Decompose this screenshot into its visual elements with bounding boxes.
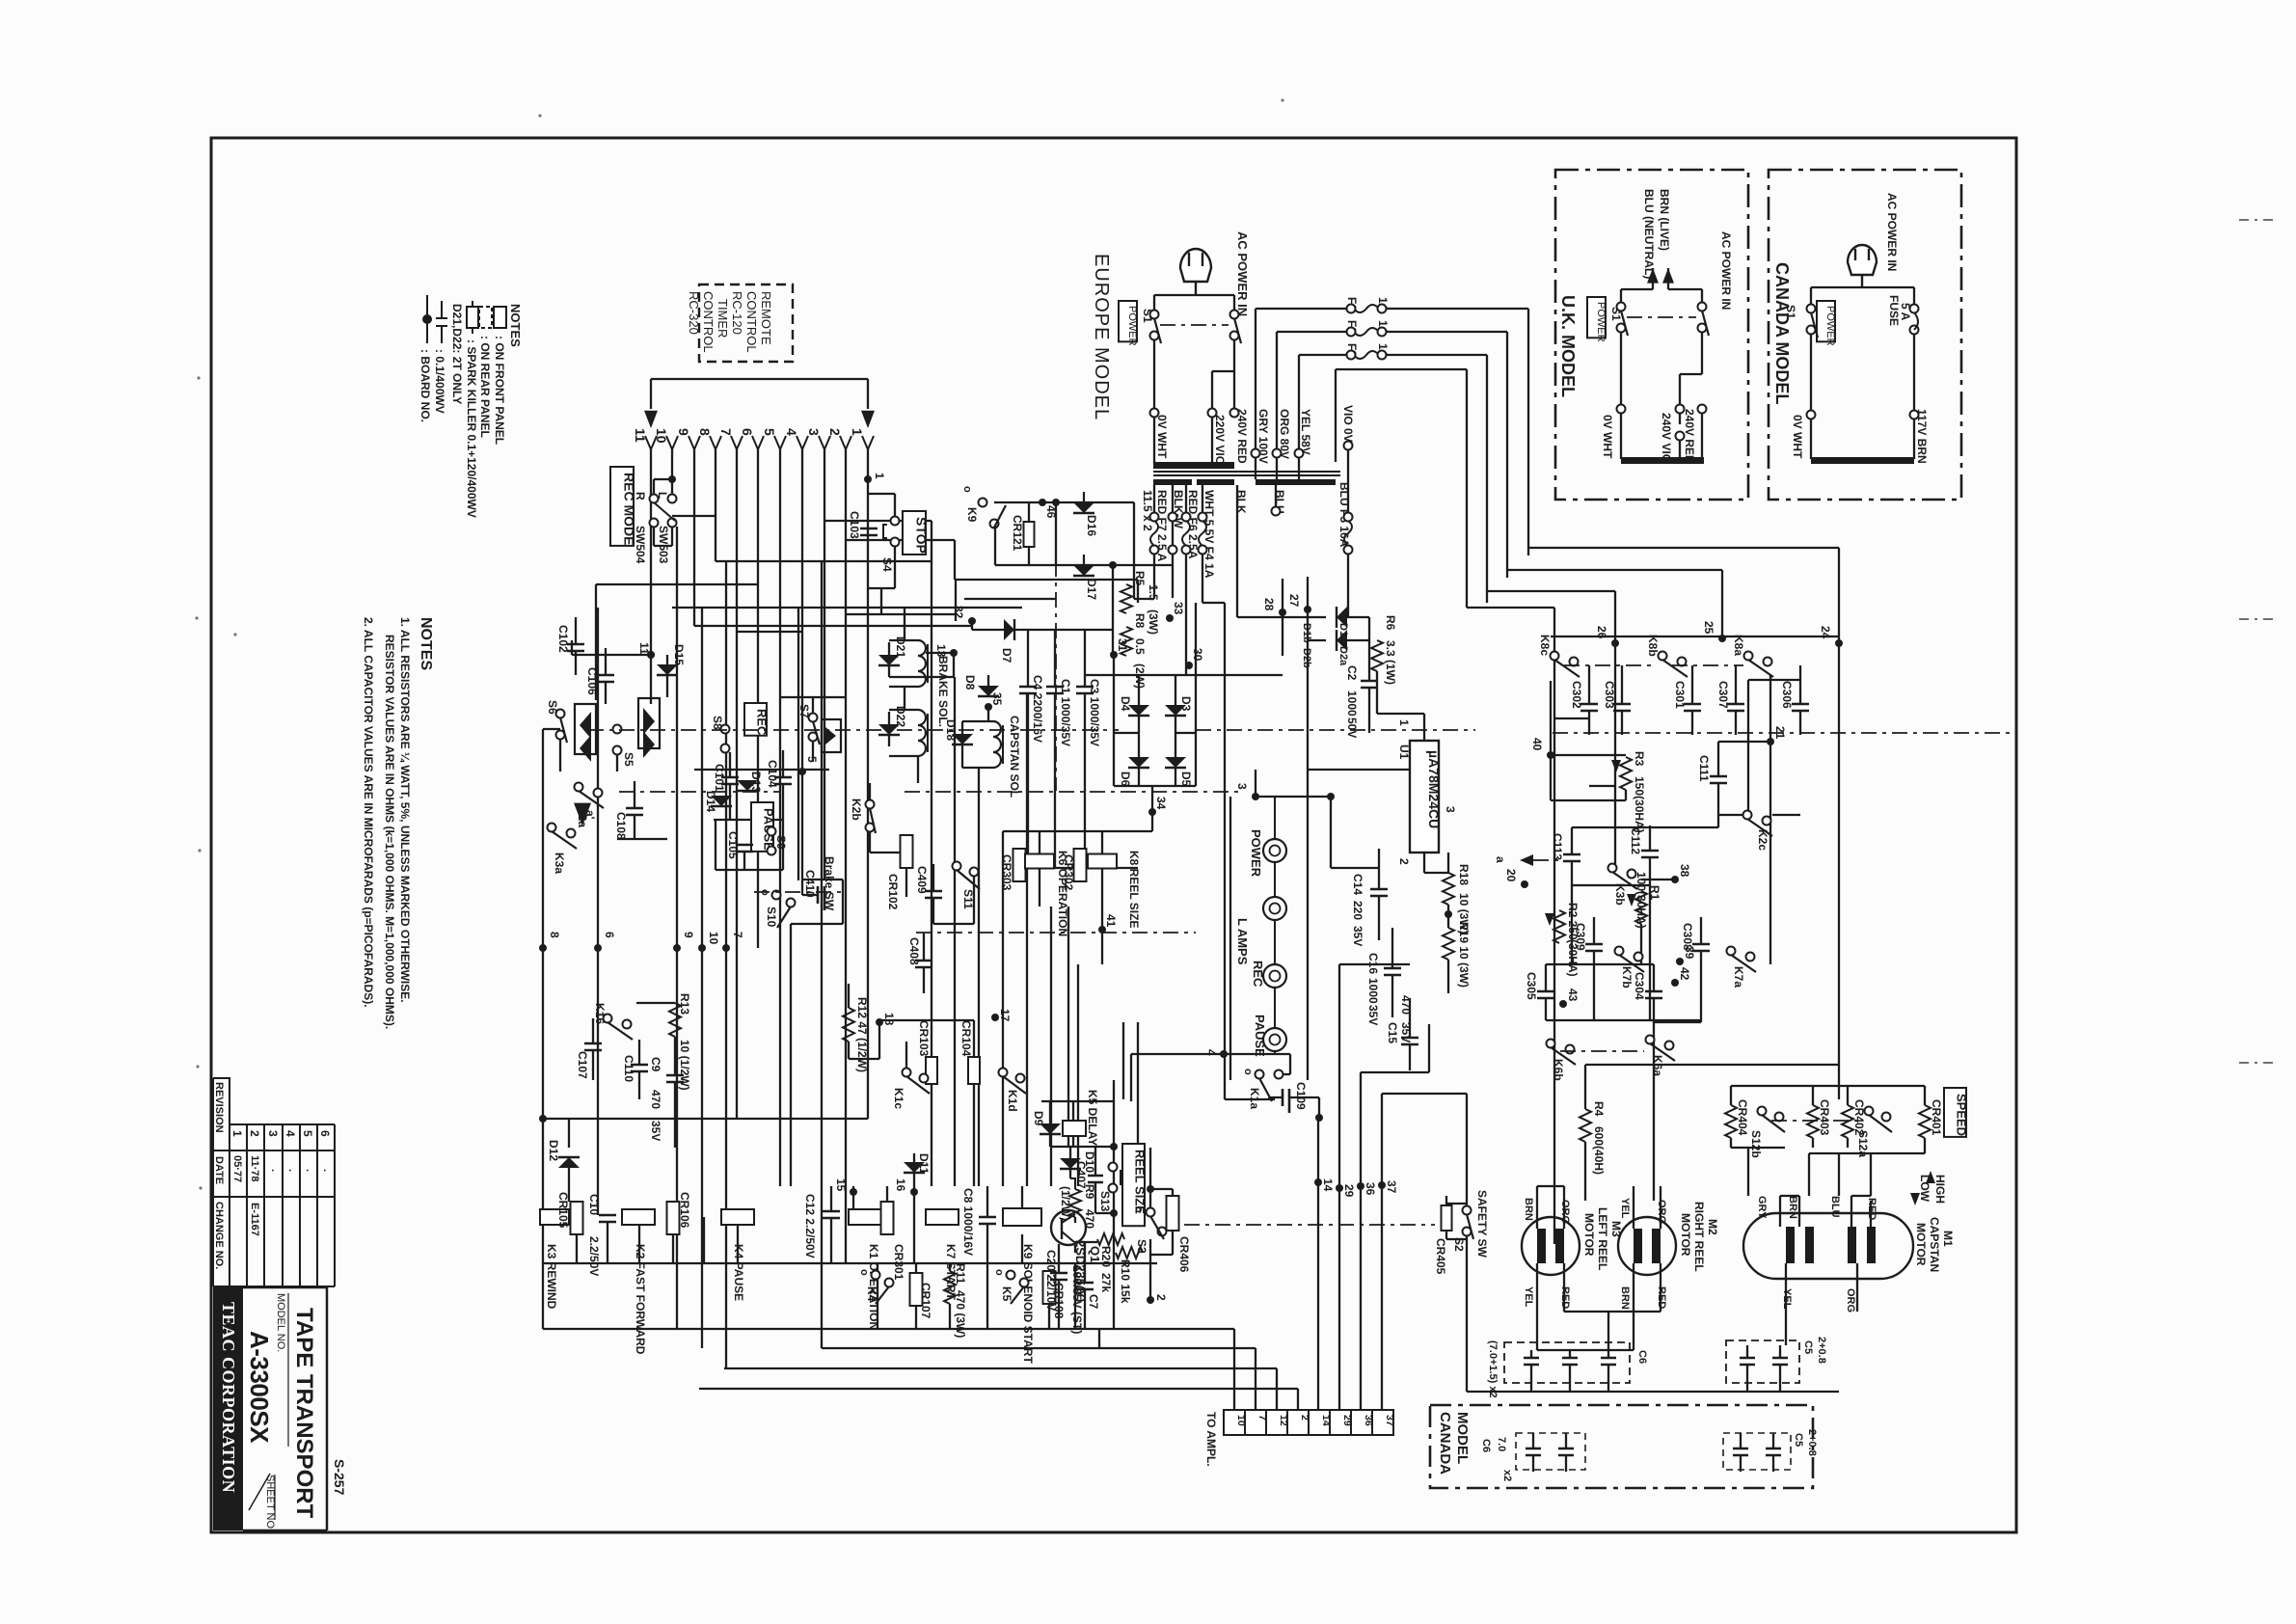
svg-text:27: 27 (1287, 594, 1301, 608)
svg-text:K8a: K8a (1732, 635, 1745, 656)
svg-text:C4 2200/16V: C4 2200/16V (1031, 675, 1044, 743)
svg-text:240V RED: 240V RED (1235, 409, 1249, 464)
svg-text:AC POWER IN: AC POWER IN (1235, 231, 1250, 316)
svg-text:220: 220 (1351, 901, 1364, 920)
svg-text:D15: D15 (672, 644, 686, 665)
svg-text:C106: C106 (585, 667, 599, 695)
svg-text:S3: S3 (1135, 1239, 1148, 1254)
svg-text:C6: C6 (1480, 1439, 1492, 1452)
svg-text:1: 1 (850, 428, 865, 436)
svg-text:U1: U1 (1397, 744, 1411, 760)
svg-text:YEL: YEL (1619, 1198, 1631, 1219)
svg-text:o: o (993, 1269, 1005, 1276)
svg-text:VIO 0V: VIO 0V (1341, 405, 1355, 443)
svg-text:CAPSTAN: CAPSTAN (1928, 1217, 1941, 1272)
svg-text:REVISION: REVISION (213, 1082, 225, 1133)
svg-text:K9 SOLENOID START: K9 SOLENOID START (1021, 1244, 1035, 1364)
svg-text:CR403: CR403 (1818, 1099, 1831, 1136)
svg-text:R11: R11 (954, 1263, 967, 1285)
svg-text:K3 REWIND: K3 REWIND (545, 1244, 558, 1310)
svg-text:30: 30 (1191, 648, 1204, 662)
svg-text:REC: REC (755, 709, 770, 736)
svg-text:C5: C5 (1802, 1340, 1814, 1354)
svg-text:K1a: K1a (1248, 1088, 1261, 1109)
svg-text:R10 15k: R10 15k (1119, 1259, 1132, 1304)
svg-text:REMOTE: REMOTE (759, 291, 773, 345)
svg-text:26: 26 (1595, 626, 1608, 639)
svg-text:S12a: S12a (1856, 1130, 1870, 1157)
svg-text:7.0: 7.0 (1496, 1437, 1507, 1451)
svg-text:C309: C309 (1574, 923, 1587, 951)
svg-text:TO AMPL.: TO AMPL. (1204, 1412, 1218, 1467)
svg-text:33: 33 (1172, 602, 1185, 615)
svg-text:7: 7 (718, 428, 734, 436)
svg-text:RED: RED (1866, 1198, 1877, 1220)
svg-text:MOTOR: MOTOR (1914, 1223, 1928, 1266)
svg-text:D14: D14 (704, 791, 717, 812)
svg-text:CR404: CR404 (1736, 1099, 1749, 1136)
svg-text:TIMER: TIMER (716, 299, 730, 338)
svg-text:C111: C111 (1697, 755, 1711, 782)
svg-text:C102: C102 (556, 625, 570, 653)
svg-text:C10: C10 (587, 1194, 601, 1215)
svg-text:MOTOR: MOTOR (1679, 1213, 1692, 1257)
svg-text:: ON REAR PANEL: : ON REAR PANEL (478, 336, 492, 438)
svg-text:R13: R13 (678, 993, 691, 1015)
svg-text:ORG: ORG (1656, 1200, 1667, 1224)
svg-text:C409: C409 (915, 866, 929, 894)
svg-text:K5: K5 (1000, 1286, 1013, 1302)
svg-text:D2a: D2a (1337, 646, 1349, 666)
svg-text:CR301: CR301 (892, 1244, 905, 1281)
svg-text:YEL: YEL (1523, 1286, 1534, 1308)
svg-text:CONTROL: CONTROL (701, 291, 716, 353)
svg-text:R1: R1 (1648, 885, 1661, 901)
svg-text:o: o (858, 1269, 870, 1276)
svg-text:470 (3W): 470 (3W) (954, 1290, 967, 1338)
svg-text:D21,D22: 2T ONLY: D21,D22: 2T ONLY (450, 304, 464, 404)
svg-text:DATE: DATE (213, 1156, 225, 1184)
svg-text:35V: 35V (649, 1121, 662, 1141)
svg-text:6: 6 (603, 932, 616, 938)
svg-text:3: 3 (806, 428, 822, 436)
svg-text:C7: C7 (1087, 1294, 1100, 1310)
svg-text:C407: C407 (1074, 1161, 1088, 1189)
svg-text:D17: D17 (1085, 579, 1098, 600)
svg-text:MOTOR: MOTOR (1582, 1213, 1596, 1257)
svg-text:CANADA MODEL: CANADA MODEL (1772, 262, 1792, 404)
svg-text:C6: C6 (1636, 1350, 1648, 1364)
svg-text:K3b: K3b (1613, 883, 1627, 906)
svg-text:R19 10 (3W): R19 10 (3W) (1457, 922, 1471, 988)
svg-text:14: 14 (1321, 1178, 1335, 1192)
svg-text:MODEL: MODEL (1454, 1412, 1471, 1464)
svg-text:R12 47 (1/2W): R12 47 (1/2W) (855, 997, 869, 1072)
svg-text:D13: D13 (749, 771, 763, 793)
svg-text:REEL SIZE: REEL SIZE (1133, 1150, 1148, 1214)
svg-text:(1/2W): (1/2W) (1059, 1186, 1072, 1221)
svg-text:0V WHT: 0V WHT (1601, 415, 1614, 459)
svg-text:K7a: K7a (1732, 966, 1745, 988)
svg-text:50V: 50V (1345, 717, 1359, 738)
svg-text:24: 24 (1819, 626, 1832, 639)
svg-text:S2: S2 (1452, 1237, 1466, 1252)
svg-text:2: 2 (1154, 1294, 1168, 1301)
svg-text:C2: C2 (1345, 665, 1359, 681)
svg-text:D22: D22 (894, 706, 907, 727)
svg-text:4: 4 (284, 1130, 297, 1137)
svg-text:K5 DELAY: K5 DELAY (1086, 1090, 1099, 1146)
svg-text:D6: D6 (1119, 771, 1132, 787)
svg-text:7: 7 (731, 932, 744, 938)
svg-text:100(30HA): 100(30HA) (1634, 872, 1648, 929)
svg-text:D2b: D2b (1301, 648, 1312, 668)
svg-text:S12b: S12b (1749, 1130, 1763, 1158)
svg-text:R18: R18 (1457, 864, 1471, 885)
svg-text:o: o (1242, 1069, 1254, 1075)
svg-text:6: 6 (318, 1130, 332, 1137)
svg-text:BLU: BLU (1829, 1196, 1841, 1218)
svg-text:R6: R6 (1384, 615, 1397, 631)
svg-text:SAFETY SW: SAFETY SW (1475, 1190, 1489, 1258)
svg-text:L AMPS: L AMPS (1235, 918, 1250, 965)
svg-text:BRN: BRN (1523, 1198, 1534, 1221)
svg-text:3.3 (1W): 3.3 (1W) (1384, 640, 1397, 685)
svg-text:RESISTOR VALUES ARE IN OHMS (k: RESISTOR VALUES ARE IN OHMS (k=1,000 OHM… (383, 635, 396, 1029)
svg-text:: ON FRONT PANEL: : ON FRONT PANEL (493, 336, 506, 445)
svg-text:CR401: CR401 (1930, 1099, 1943, 1136)
svg-text:CR105: CR105 (556, 1192, 570, 1229)
svg-text:C9: C9 (649, 1057, 662, 1072)
svg-text:11: 11 (633, 428, 648, 443)
svg-text:S1: S1 (1784, 305, 1797, 319)
svg-text:R4: R4 (1592, 1101, 1606, 1117)
svg-text:C3 1000/35V: C3 1000/35V (1088, 679, 1101, 746)
svg-text:Brake SW: Brake SW (823, 856, 836, 911)
svg-text:D16: D16 (1085, 515, 1098, 536)
svg-text:0V WHT: 0V WHT (1155, 415, 1169, 459)
svg-text:·: · (266, 1169, 278, 1173)
svg-text:BRN: BRN (1619, 1286, 1631, 1310)
svg-text:SW503: SW503 (657, 526, 670, 564)
svg-text:35V: 35V (1351, 926, 1364, 946)
svg-text:K6b: K6b (1552, 1059, 1565, 1081)
svg-text:2SD235(Y): 2SD235(Y) (1073, 1240, 1088, 1302)
svg-text:240V RED: 240V RED (1683, 409, 1696, 464)
svg-text:C410: C410 (803, 870, 817, 898)
svg-text:R8: R8 (1133, 613, 1147, 629)
svg-text:35V: 35V (1366, 1005, 1380, 1025)
svg-text:RED: RED (1559, 1286, 1571, 1309)
svg-text:POWER: POWER (1595, 302, 1607, 342)
svg-text:R3: R3 (1633, 751, 1646, 767)
svg-text:K4: K4 (865, 1286, 878, 1302)
svg-text:43: 43 (1566, 988, 1580, 1002)
svg-text:AC POWER IN: AC POWER IN (1719, 231, 1733, 310)
svg-text:SW504: SW504 (634, 526, 647, 564)
svg-text:470: 470 (1399, 995, 1413, 1015)
svg-text:CR103: CR103 (917, 1020, 931, 1057)
svg-text:S10: S10 (765, 907, 778, 928)
svg-text:BRN: BRN (1787, 1196, 1798, 1219)
svg-text:D3: D3 (1179, 696, 1193, 712)
svg-text:D21: D21 (894, 636, 907, 658)
svg-text:·: · (301, 1169, 312, 1173)
svg-text:: 0.1/400WV: : 0.1/400WV (433, 349, 446, 414)
svg-text:C1 1000/35V: C1 1000/35V (1059, 679, 1072, 746)
svg-text:42: 42 (1678, 967, 1691, 981)
svg-text:(3W): (3W) (1147, 609, 1160, 635)
svg-text:o: o (961, 486, 973, 493)
svg-text:34: 34 (1154, 797, 1168, 810)
svg-text:C304: C304 (1633, 972, 1646, 1000)
svg-text:38: 38 (1678, 864, 1691, 878)
svg-text:5: 5 (805, 756, 819, 763)
svg-text:S-257: S-257 (332, 1459, 347, 1496)
svg-text:S5: S5 (622, 752, 635, 767)
svg-text:K1c: K1c (892, 1088, 905, 1109)
svg-text:RIGHT REEL: RIGHT REEL (1692, 1202, 1706, 1272)
svg-text:MODEL NO.: MODEL NO. (275, 1293, 286, 1352)
svg-text:CR121: CR121 (1011, 515, 1024, 552)
svg-text:3: 3 (1444, 806, 1457, 813)
svg-text:a: a (1494, 856, 1507, 863)
svg-text:AC POWER IN: AC POWER IN (1885, 193, 1899, 271)
svg-text:Q1: Q1 (1088, 1246, 1102, 1262)
svg-text:117V BRN: 117V BRN (1915, 409, 1929, 464)
svg-text:o: o (1133, 1206, 1145, 1213)
svg-text:(7.0+1.5) x2: (7.0+1.5) x2 (1487, 1340, 1499, 1398)
svg-text:10: 10 (707, 932, 720, 945)
svg-text:15: 15 (834, 1178, 848, 1192)
svg-text:20: 20 (1504, 869, 1518, 882)
svg-text:LEFT REEL: LEFT REEL (1596, 1207, 1609, 1270)
svg-text:C112: C112 (1629, 827, 1642, 854)
svg-text:470: 470 (649, 1090, 662, 1109)
svg-text:1.5: 1.5 (1147, 584, 1160, 601)
svg-text:BRN (LIVE): BRN (LIVE) (1658, 189, 1671, 251)
svg-text:ORG: ORG (1559, 1200, 1571, 1224)
svg-text:SHEET NO.: SHEET NO. (264, 1475, 276, 1531)
svg-text:D9: D9 (1032, 1111, 1045, 1126)
svg-text:D5: D5 (1179, 771, 1193, 787)
svg-text:R: R (634, 492, 647, 501)
svg-text:K4 PAUSE: K4 PAUSE (732, 1244, 745, 1301)
svg-text:D11: D11 (917, 1153, 931, 1175)
svg-text:3: 3 (1235, 783, 1249, 790)
svg-text:C8 1000/16V: C8 1000/16V (961, 1188, 975, 1256)
svg-text:K6a: K6a (1651, 1055, 1664, 1076)
svg-text:2: 2 (1397, 858, 1411, 865)
svg-text:LOW: LOW (1918, 1175, 1931, 1203)
svg-text:GRY 100V: GRY 100V (1256, 409, 1270, 464)
svg-text:µA78M24CU: µA78M24CU (1426, 750, 1442, 828)
svg-text:K9: K9 (965, 507, 979, 523)
svg-text:: SPARK KILLER 0.1+120/400WV: : SPARK KILLER 0.1+120/400WV (465, 339, 478, 518)
svg-text:C110: C110 (622, 1055, 635, 1082)
svg-text:POWER: POWER (1249, 829, 1263, 878)
svg-text:0V WHT: 0V WHT (1791, 415, 1804, 459)
svg-text:POWER: POWER (1126, 306, 1138, 346)
svg-text:WHT 5.5V F4 1A: WHT 5.5V F4 1A (1202, 490, 1216, 579)
svg-text:TAPE TRANSPORT: TAPE TRANSPORT (291, 1308, 317, 1519)
svg-text:C113: C113 (1551, 833, 1564, 860)
svg-text:K8 REEL SIZE: K8 REEL SIZE (1127, 851, 1141, 928)
svg-text:K2 FAST FORWARD: K2 FAST FORWARD (634, 1244, 647, 1355)
svg-text:18: 18 (882, 1013, 896, 1026)
svg-text:PAUSE: PAUSE (1253, 1015, 1267, 1057)
svg-text:D4: D4 (1119, 696, 1132, 712)
svg-text:2.2/50V: 2.2/50V (587, 1236, 601, 1276)
svg-text:C107: C107 (576, 1051, 589, 1079)
svg-text:37: 37 (1384, 1415, 1395, 1426)
svg-text:STOP: STOP (913, 517, 929, 554)
svg-text:9: 9 (676, 428, 691, 436)
svg-text:K8b: K8b (1646, 635, 1660, 657)
svg-text:K1d: K1d (1006, 1090, 1019, 1112)
svg-text:D1b: D1b (1301, 623, 1312, 643)
svg-text:37: 37 (1385, 1180, 1398, 1194)
svg-text:C306: C306 (1780, 681, 1794, 709)
svg-text:32: 32 (952, 606, 965, 619)
svg-text:GRY: GRY (1756, 1196, 1768, 1219)
svg-text:RED: RED (1656, 1286, 1667, 1309)
svg-text:K7b: K7b (1620, 966, 1634, 988)
svg-text:M1: M1 (1941, 1231, 1955, 1247)
svg-text:CR102: CR102 (886, 874, 900, 910)
svg-text:U.K. MODEL: U.K. MODEL (1558, 295, 1578, 397)
svg-text:2: 2 (827, 428, 843, 436)
svg-text:13: 13 (934, 644, 948, 658)
svg-text:40: 40 (1530, 738, 1544, 751)
svg-text:x2: x2 (1501, 1470, 1513, 1481)
svg-text:1: 1 (230, 1130, 244, 1137)
svg-text:8: 8 (548, 932, 561, 938)
svg-text:BLU (NEUTRAL): BLU (NEUTRAL) (1642, 189, 1656, 279)
svg-text:C305: C305 (1525, 972, 1538, 1000)
svg-text:A-3300SX: A-3300SX (245, 1331, 274, 1444)
svg-text:CR107: CR107 (919, 1283, 932, 1319)
svg-text:11.5 x 2: 11.5 x 2 (1141, 490, 1154, 531)
svg-text:1000: 1000 (1345, 690, 1359, 717)
svg-text:4: 4 (1204, 1049, 1218, 1056)
svg-text:TEAC CORPORATION: TEAC CORPORATION (219, 1302, 238, 1493)
svg-text:2+0.8: 2+0.8 (1806, 1429, 1818, 1456)
svg-text:ORG: ORG (1845, 1288, 1856, 1313)
svg-text:D7: D7 (1000, 648, 1013, 663)
svg-text:CR104: CR104 (959, 1020, 973, 1057)
svg-text:6: 6 (740, 428, 755, 436)
svg-text:4: 4 (784, 428, 799, 436)
svg-text:·: · (318, 1169, 330, 1173)
svg-text:CR106: CR106 (678, 1192, 691, 1229)
svg-text:3: 3 (266, 1130, 280, 1137)
svg-text:D8: D8 (963, 675, 977, 690)
svg-text:1000: 1000 (1366, 978, 1380, 1004)
svg-text:28: 28 (1262, 598, 1276, 611)
svg-text:1: 1 (1397, 719, 1411, 726)
svg-text:C5: C5 (1793, 1433, 1804, 1447)
svg-text:YEL: YEL (1781, 1288, 1793, 1310)
svg-text:FUSE: FUSE (1887, 295, 1901, 326)
svg-text:: BOARD NO.: : BOARD NO. (419, 349, 432, 422)
svg-text:CANADA: CANADA (1437, 1412, 1453, 1475)
svg-text:C109: C109 (1294, 1082, 1308, 1110)
svg-text:CR406: CR406 (1177, 1236, 1191, 1273)
svg-text:BLK-W: BLK-W (1172, 490, 1185, 529)
svg-text:BRAKE SOL.: BRAKE SOL. (936, 656, 950, 727)
svg-text:NOTES: NOTES (508, 304, 523, 347)
svg-text:CR303: CR303 (1000, 854, 1013, 891)
svg-text:CR405: CR405 (1434, 1238, 1447, 1275)
svg-text:35V: 35V (1399, 1022, 1413, 1042)
svg-text:D12: D12 (547, 1140, 560, 1161)
svg-text:C15: C15 (1386, 1022, 1399, 1043)
svg-text:27k: 27k (1099, 1273, 1113, 1292)
svg-text:·: · (284, 1169, 295, 1173)
svg-text:M2: M2 (1706, 1219, 1719, 1235)
svg-text:35: 35 (990, 692, 1004, 706)
svg-text:C14: C14 (1351, 874, 1364, 895)
svg-text:1: 1 (873, 473, 886, 479)
svg-text:NOTES: NOTES (418, 617, 434, 670)
svg-text:(2W): (2W) (1133, 663, 1147, 689)
svg-text:C16: C16 (1366, 953, 1380, 974)
svg-text:46: 46 (1044, 505, 1058, 519)
svg-text:E-1167: E-1167 (249, 1203, 260, 1236)
svg-text:41: 41 (1104, 914, 1118, 928)
svg-text:25: 25 (1702, 621, 1715, 635)
svg-text:CHANGE NO.: CHANGE NO. (213, 1202, 225, 1269)
svg-text:REC: REC (1251, 961, 1265, 988)
svg-text:BLK: BLK (1234, 490, 1248, 514)
svg-text:K3a: K3a (553, 853, 566, 874)
svg-text:240V VIO: 240V VIO (1660, 413, 1673, 463)
svg-text:11·78: 11·78 (249, 1155, 260, 1182)
svg-text:K2b: K2b (850, 798, 863, 821)
svg-text:SPEED: SPEED (1955, 1094, 1969, 1136)
svg-text:9: 9 (682, 932, 695, 938)
svg-text:S13: S13 (1098, 1191, 1112, 1212)
svg-text:39: 39 (1683, 946, 1696, 960)
svg-text:ORG 80V: ORG 80V (1278, 409, 1291, 459)
svg-text:2+0.8: 2+0.8 (1816, 1337, 1827, 1364)
svg-text:HIGH: HIGH (1933, 1175, 1947, 1204)
svg-text:5: 5 (301, 1130, 314, 1137)
svg-text:2. ALL CAPACITOR VALUES ARE I: 2. ALL CAPACITOR VALUES ARE IN MICROFARA… (362, 617, 375, 1008)
svg-text:8: 8 (697, 428, 713, 436)
svg-text:5: 5 (762, 428, 777, 436)
svg-text:05·77: 05·77 (231, 1155, 243, 1182)
svg-text:POWER: POWER (1824, 306, 1836, 346)
svg-text:2: 2 (248, 1130, 261, 1137)
svg-text:S11: S11 (961, 889, 975, 909)
svg-text:a': a' (583, 810, 597, 820)
svg-text:K8c: K8c (1538, 635, 1552, 656)
svg-text:D1a: D1a (1337, 623, 1349, 643)
svg-text:S9: S9 (774, 835, 788, 850)
svg-text:RC-320: RC-320 (687, 291, 701, 335)
svg-text:C108: C108 (614, 812, 628, 840)
svg-text:EUROPE MODEL: EUROPE MODEL (1091, 254, 1112, 420)
svg-text:CR302: CR302 (1062, 854, 1075, 891)
svg-text:1. ALL RESISTORS ARE ¼ WATT,: 1. ALL RESISTORS ARE ¼ WATT, 5%, UNLESS … (398, 617, 412, 1003)
svg-text:17: 17 (998, 1009, 1012, 1022)
svg-text:150(30HA): 150(30HA) (1633, 776, 1646, 833)
svg-text:36: 36 (1364, 1182, 1377, 1196)
svg-text:0.5: 0.5 (1133, 638, 1147, 655)
svg-text:RC-120: RC-120 (730, 291, 744, 335)
